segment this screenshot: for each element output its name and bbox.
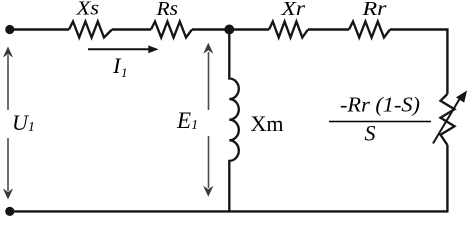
branch wire with magnetizing inductor Xm (229, 30, 239, 212)
wire between Xs and Rs (112, 28, 151, 30)
current arrow I1 (88, 45, 159, 53)
svg-text:Rs: Rs (155, 0, 178, 20)
emf arrow E1 down segment (203, 136, 213, 197)
svg-text:Xs: Xs (75, 0, 99, 20)
variable resistor Rload zigzag (441, 94, 455, 145)
svg-text:S: S (365, 121, 376, 146)
terminal dot bottom-left (5, 207, 14, 216)
node junction dot (224, 25, 234, 35)
svg-text:I1: I1 (112, 53, 128, 80)
resistor Xs (69, 22, 112, 38)
wire bottom (10, 210, 449, 212)
resistor Rr (349, 22, 390, 38)
wire Rr to top-right corner (390, 30, 447, 95)
svg-text:Xm: Xm (251, 111, 284, 136)
wire top-left segment (10, 28, 69, 30)
terminal dot top-left (5, 25, 14, 34)
resistor Xr (269, 22, 308, 38)
resistor Rs (151, 22, 192, 38)
voltage arrow U1 down segment (3, 138, 13, 200)
svg-text:U1: U1 (12, 110, 35, 135)
fraction bar (329, 121, 431, 123)
voltage arrow U1 up segment (3, 47, 13, 111)
wire between Xr and Rr (308, 28, 349, 30)
svg-text:Xr: Xr (280, 0, 305, 20)
svg-text:-Rr (1-S): -Rr (1-S) (340, 93, 420, 117)
wire between Rs and node (192, 28, 269, 30)
wire right side down (446, 145, 448, 211)
emf arrow E1 up segment (203, 43, 213, 110)
svg-text:Rr: Rr (361, 0, 386, 20)
svg-text:E1: E1 (176, 108, 198, 133)
variable resistor arrow (433, 91, 467, 144)
